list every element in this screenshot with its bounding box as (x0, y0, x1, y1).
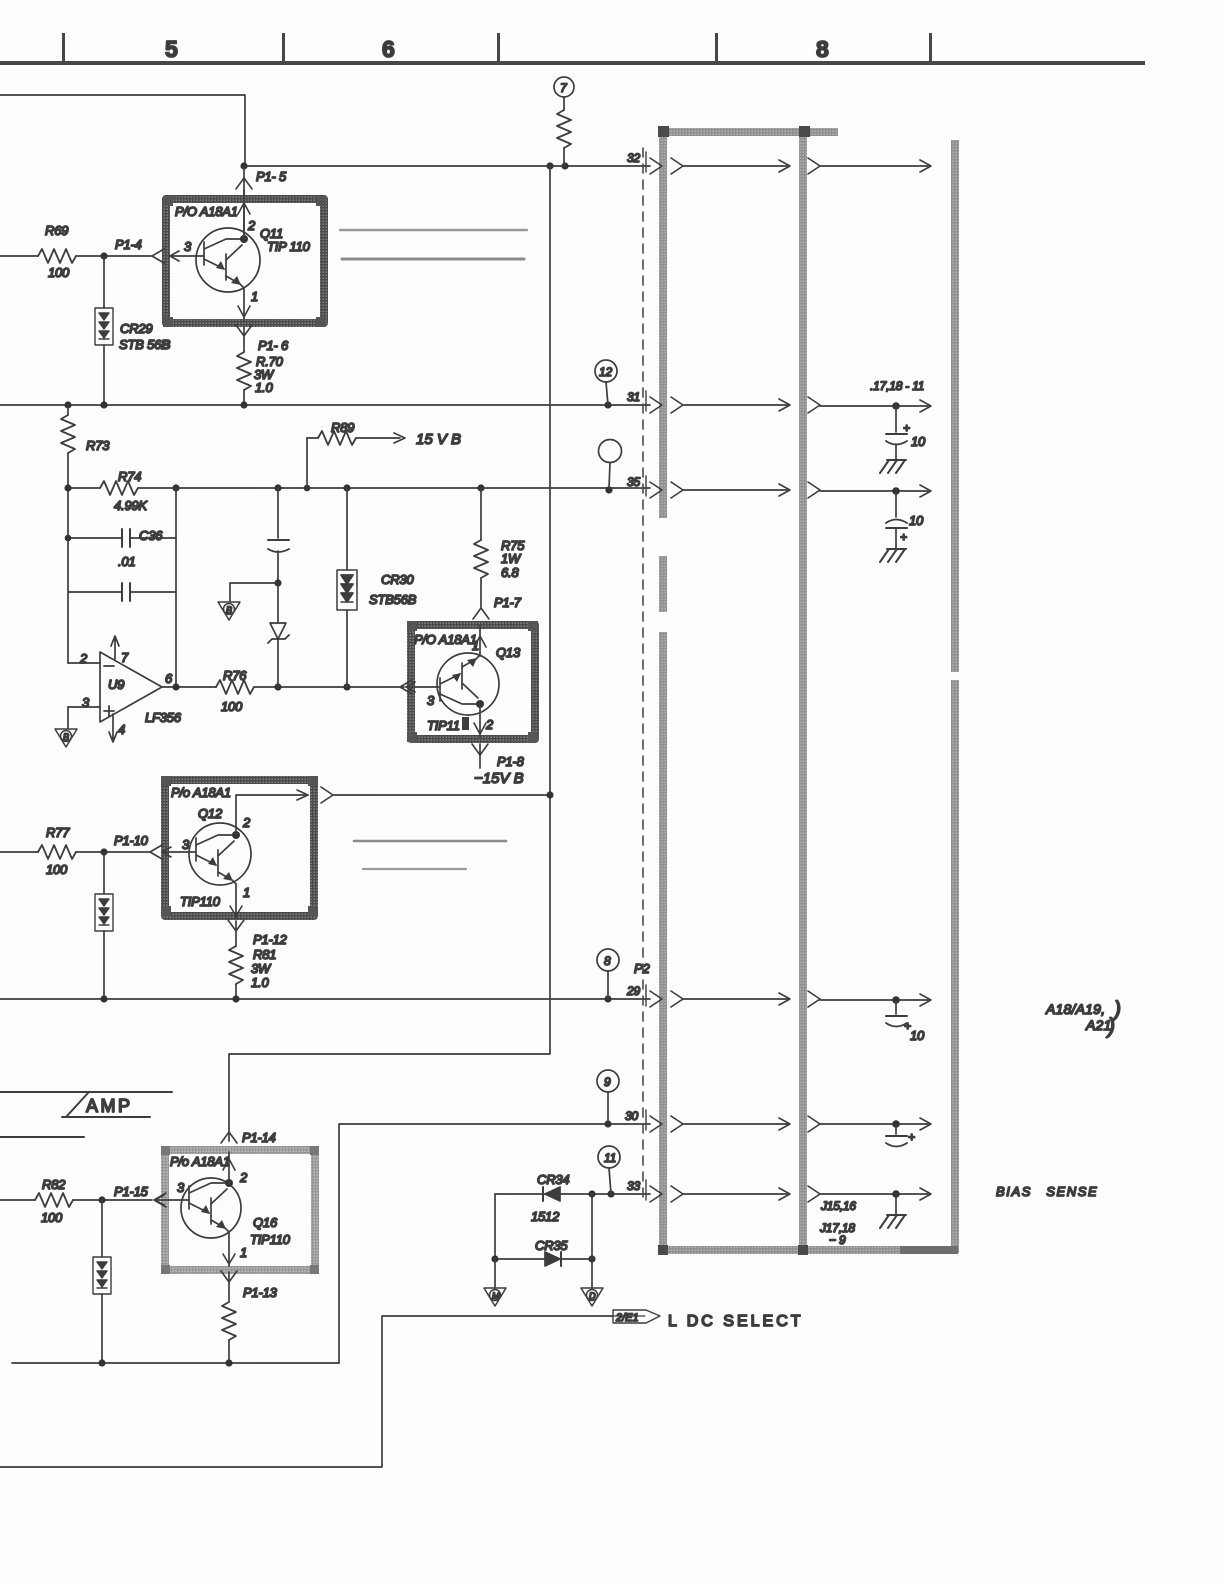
net AMP label (0, 1091, 172, 1093)
node CR30 bottom (343, 683, 350, 690)
pin P1-14 (221, 1132, 237, 1143)
svg-text:6: 6 (382, 36, 395, 62)
svg-text:B: B (226, 605, 232, 615)
svg-text:4: 4 (118, 722, 125, 737)
module box Q13 P/O A18A1 (411, 625, 535, 739)
border ruler line (0, 61, 1145, 65)
diode CR35 (495, 1258, 592, 1260)
svg-text:M: M (492, 1291, 500, 1301)
svg-text:6.8: 6.8 (501, 565, 519, 580)
node junction R-7 (561, 162, 568, 169)
svg-text:1: 1 (240, 1245, 247, 1260)
svg-text:100: 100 (48, 265, 70, 280)
svg-text:B: B (63, 732, 69, 742)
node pin35 stub (605, 486, 612, 493)
ground sym D (581, 1288, 603, 1306)
faded wire stubs right of Q12 (354, 840, 506, 843)
node CR34 right (588, 1190, 595, 1197)
capacitor mid branch (277, 488, 279, 538)
svg-text:11: 11 (604, 1151, 616, 1165)
svg-text:10: 10 (910, 1028, 925, 1043)
diode stack below P1-10 (103, 852, 105, 894)
wire row pin32 (244, 165, 650, 167)
svg-text:L DC SELECT: L DC SELECT (668, 1313, 804, 1330)
svg-text:CR34: CR34 (537, 1172, 569, 1187)
svg-text:U9: U9 (108, 677, 124, 692)
wire Q12 collector out to bus (236, 795, 308, 835)
diode CR30 STB56B (346, 488, 348, 570)
svg-text:D: D (589, 1291, 596, 1301)
resistor R69 100 (0, 255, 38, 257)
pin 3 chevron at Q12 box edge (150, 845, 162, 859)
svg-text:35: 35 (627, 475, 640, 489)
diode CR29 STB56B (103, 256, 105, 308)
svg-text:3: 3 (427, 693, 435, 708)
pin P1-6 (236, 325, 252, 336)
svg-text:32: 32 (627, 151, 640, 165)
resistor R74 4.99K (100, 481, 138, 495)
node pin31 stub (604, 401, 611, 408)
node P1-5 junction (240, 162, 247, 169)
node zener mid (274, 579, 281, 586)
ruler tick 1 (62, 33, 65, 61)
svg-text:4.99K: 4.99K (114, 498, 149, 513)
svg-text:P1- 6: P1- 6 (258, 338, 289, 353)
svg-text:29: 29 (626, 984, 640, 998)
cable bar top (659, 128, 838, 136)
svg-text:5: 5 (165, 36, 178, 62)
svg-text:.17,18 - 11: .17,18 - 11 (870, 379, 924, 393)
svg-text:Q13: Q13 (496, 645, 521, 660)
capacitor feedback 2 (68, 591, 122, 593)
svg-text:7: 7 (121, 650, 129, 665)
resistor below circled 7 (563, 97, 565, 110)
svg-text:1: 1 (472, 638, 479, 653)
ruler tick 4 (715, 33, 718, 61)
svg-text:P1-10: P1-10 (114, 833, 149, 848)
svg-text:10: 10 (909, 513, 924, 528)
svg-text:R89: R89 (331, 420, 354, 435)
svg-text:3: 3 (82, 695, 90, 710)
svg-text:P1-14: P1-14 (242, 1130, 276, 1145)
resistor R73 (67, 405, 69, 415)
wire top-left feed to P1-5 (0, 95, 245, 163)
svg-text:100: 100 (46, 862, 68, 877)
node R70 bottom (240, 401, 247, 408)
svg-text:+: + (903, 421, 910, 435)
node R81 bottom (232, 995, 239, 1002)
wire CR35 right leg (591, 1194, 593, 1288)
wire row 30 with corner down (339, 1124, 650, 1363)
svg-text:P1-4: P1-4 (115, 237, 142, 252)
svg-text:STB 56B: STB 56B (119, 337, 170, 352)
svg-text:+: + (900, 530, 907, 544)
svg-text:LF356: LF356 (145, 710, 182, 725)
svg-text:P1-8: P1-8 (497, 754, 525, 769)
cable bar bottom (659, 1246, 958, 1254)
svg-text:P1-13: P1-13 (243, 1285, 278, 1300)
resistor R89 to 15VB (306, 438, 308, 488)
capacitor on pin30 (892, 1120, 900, 1128)
faded wire stubs right of Q11 (340, 229, 527, 231)
svg-text:30: 30 (625, 1109, 638, 1123)
svg-text:2: 2 (485, 717, 494, 732)
wire feedback vertical (175, 488, 177, 687)
svg-text:.01: .01 (118, 554, 135, 569)
diode CR34 (495, 1193, 650, 1195)
svg-text:10: 10 (911, 434, 926, 449)
wire CR34 left leg (494, 1194, 496, 1259)
svg-text:31: 31 (627, 390, 640, 404)
ground sym M (494, 1259, 496, 1288)
node feedback top (172, 484, 179, 491)
svg-text:R81: R81 (253, 947, 276, 962)
node CR29 bottom (100, 401, 107, 408)
svg-text:TIP110: TIP110 (250, 1232, 291, 1247)
node circled 11 (598, 1146, 620, 1168)
node zener branch top (274, 484, 281, 491)
pin P1-8 (472, 744, 488, 755)
node zener bottom (274, 683, 281, 690)
capacitor 10 on pin31 (892, 402, 900, 410)
svg-text:1.0: 1.0 (255, 380, 273, 395)
svg-text:P/o A18A1: P/o A18A1 (171, 785, 231, 800)
svg-text:P/O A18A1: P/O A18A1 (175, 204, 238, 219)
pin P1-12 (235, 884, 237, 918)
ground sym B opamp (55, 729, 77, 747)
svg-text:C36: C36 (139, 528, 163, 543)
svg-text:TIP110: TIP110 (180, 894, 221, 909)
svg-text:100: 100 (221, 699, 243, 714)
op-amp U9 LF356 (100, 652, 162, 722)
resistor R75 1W 6.8 (480, 488, 482, 540)
svg-text:1: 1 (251, 289, 258, 304)
wire row 31 (0, 404, 650, 406)
op-amp feed wire Q11 collector (243, 190, 245, 240)
wire long vertical bus from pin32 row (229, 166, 550, 1141)
svg-text:BIAS SENSE: BIAS SENSE (996, 1184, 1098, 1199)
ruler tick 3 (497, 33, 500, 61)
svg-text:2/E1: 2/E1 (615, 1312, 639, 1324)
node circled 12 (595, 360, 617, 382)
svg-text:P/O A18A1: P/O A18A1 (414, 632, 477, 647)
svg-text:P1-7: P1-7 (494, 595, 522, 610)
cable bar left (659, 128, 667, 518)
node R75 top (477, 484, 484, 491)
svg-text:R76: R76 (223, 668, 247, 683)
capacitor C36 .01 (68, 537, 122, 539)
svg-text:2: 2 (239, 1170, 248, 1185)
module box Q12 P/O A18A1 (165, 780, 314, 916)
transistor Q16 TIP110 darlington (181, 1178, 241, 1238)
node circled 8 (597, 949, 619, 971)
svg-text:J15,16: J15,16 (820, 1199, 856, 1213)
node R89 drop (304, 485, 311, 492)
svg-text:R74: R74 (118, 469, 141, 484)
wire L DC SELECT run (0, 1316, 612, 1467)
svg-text:3: 3 (184, 239, 192, 254)
svg-text:P/o A18A1: P/o A18A1 (170, 1154, 230, 1169)
ruler tick 2 (282, 33, 285, 61)
svg-text:1.0: 1.0 (251, 975, 269, 990)
svg-text:6: 6 (165, 671, 173, 686)
svg-text:+: + (908, 1130, 915, 1144)
node diode stack bottom (100, 995, 107, 1002)
node P1-15 junction (98, 1196, 105, 1203)
svg-text:1W: 1W (501, 551, 522, 566)
wire bottom row left (12, 1362, 339, 1364)
capacitor 10 on pin29 (892, 996, 900, 1004)
svg-text:R69: R69 (45, 223, 68, 238)
svg-text:TIP11: TIP11 (427, 718, 460, 733)
module box Q16 P/O A18A1 (165, 1150, 315, 1270)
node P1-10 junction (100, 848, 107, 855)
pin 3 chevron at box edge (152, 249, 164, 263)
svg-text:− 9: − 9 (829, 1233, 846, 1247)
svg-text:A18/A19,: A18/A19, (1045, 1001, 1105, 1017)
pin P1-13 (228, 1232, 230, 1266)
capacitor 10 on pin35 (892, 487, 900, 495)
connector P2 dashed boundary (642, 148, 644, 1199)
svg-text:1512: 1512 (531, 1209, 560, 1224)
svg-text:9: 9 (604, 1075, 611, 1089)
svg-text:Q12: Q12 (198, 806, 223, 821)
resistor R76 100 (216, 680, 254, 694)
diode VR zener (277, 583, 279, 623)
transistor Q12 TIP110 darlington (189, 823, 251, 885)
svg-text:8: 8 (816, 36, 829, 62)
cable bar middle (799, 128, 807, 1253)
svg-text:−15V B: −15V B (474, 770, 524, 787)
node R74 left (64, 484, 71, 491)
diode stack below P1-15 (101, 1200, 103, 1257)
flag 2/E1 (613, 1310, 660, 1323)
wire row 29 (0, 998, 650, 1000)
wire op-amp output (162, 686, 216, 688)
pin 3 chevron at Q13 box edge (400, 680, 412, 694)
pin P1-7 (473, 608, 489, 619)
pin 3 chevron at Q16 box edge (154, 1193, 166, 1207)
svg-text:P1-15: P1-15 (114, 1184, 149, 1199)
svg-text:P1-12: P1-12 (253, 932, 288, 947)
svg-text:R77: R77 (46, 825, 70, 840)
svg-text:3: 3 (182, 837, 190, 852)
wire to ground sym B mid (230, 583, 278, 601)
svg-text:AMP: AMP (86, 1096, 133, 1116)
transistor Q13 TIP115 darlington (437, 653, 499, 715)
svg-text:100: 100 (41, 1210, 63, 1225)
module box Q11 P/O A18A1 (166, 199, 324, 323)
svg-text:3W: 3W (251, 961, 272, 976)
svg-text:33: 33 (627, 1179, 640, 1193)
svg-text:CR30: CR30 (381, 572, 414, 587)
svg-text:8: 8 (604, 954, 611, 968)
cable bar right (951, 140, 959, 672)
svg-text:R73: R73 (86, 438, 110, 453)
svg-text:Q16: Q16 (253, 1215, 278, 1230)
svg-text:1: 1 (243, 885, 250, 900)
svg-text:12: 12 (599, 365, 612, 379)
resistor R70 3W 1.0 (243, 326, 245, 352)
pin P1-5 (236, 178, 252, 189)
svg-text:CR29: CR29 (120, 321, 152, 336)
svg-text:R82: R82 (42, 1177, 66, 1192)
node pin29 stub (604, 995, 611, 1002)
resistor below Q16 (228, 1272, 230, 1302)
svg-text:CR35: CR35 (535, 1238, 568, 1253)
ruler tick 5 (929, 33, 932, 61)
svg-text:P1- 5: P1- 5 (256, 169, 287, 184)
svg-text:2: 2 (242, 815, 251, 830)
svg-text:STB56B: STB56B (369, 592, 417, 607)
svg-text:2: 2 (79, 651, 88, 666)
svg-text:3: 3 (177, 1180, 185, 1195)
node circled 9 (597, 1070, 619, 1092)
wire row 35 / R74 row (68, 487, 100, 489)
node junction vertical drop (546, 162, 553, 169)
transistor Q11 TIP110 darlington (196, 228, 260, 292)
svg-text:TIP 110: TIP 110 (267, 239, 311, 254)
node P1-4 junction (100, 252, 107, 259)
ground on pin33 (892, 1190, 900, 1198)
node CR30 top (343, 484, 350, 491)
svg-text:2: 2 (247, 218, 256, 233)
resistor R81 3W 1.0 (235, 921, 237, 946)
node circled 7 (554, 77, 574, 97)
node circled blank (599, 440, 622, 463)
node pin33 stub (607, 1190, 614, 1197)
svg-text:7: 7 (560, 81, 568, 95)
resistor R77 100 (0, 851, 38, 853)
svg-text:15 V B: 15 V B (416, 431, 461, 448)
resistor R82 100 (0, 1199, 35, 1201)
node R73 top (64, 401, 71, 408)
